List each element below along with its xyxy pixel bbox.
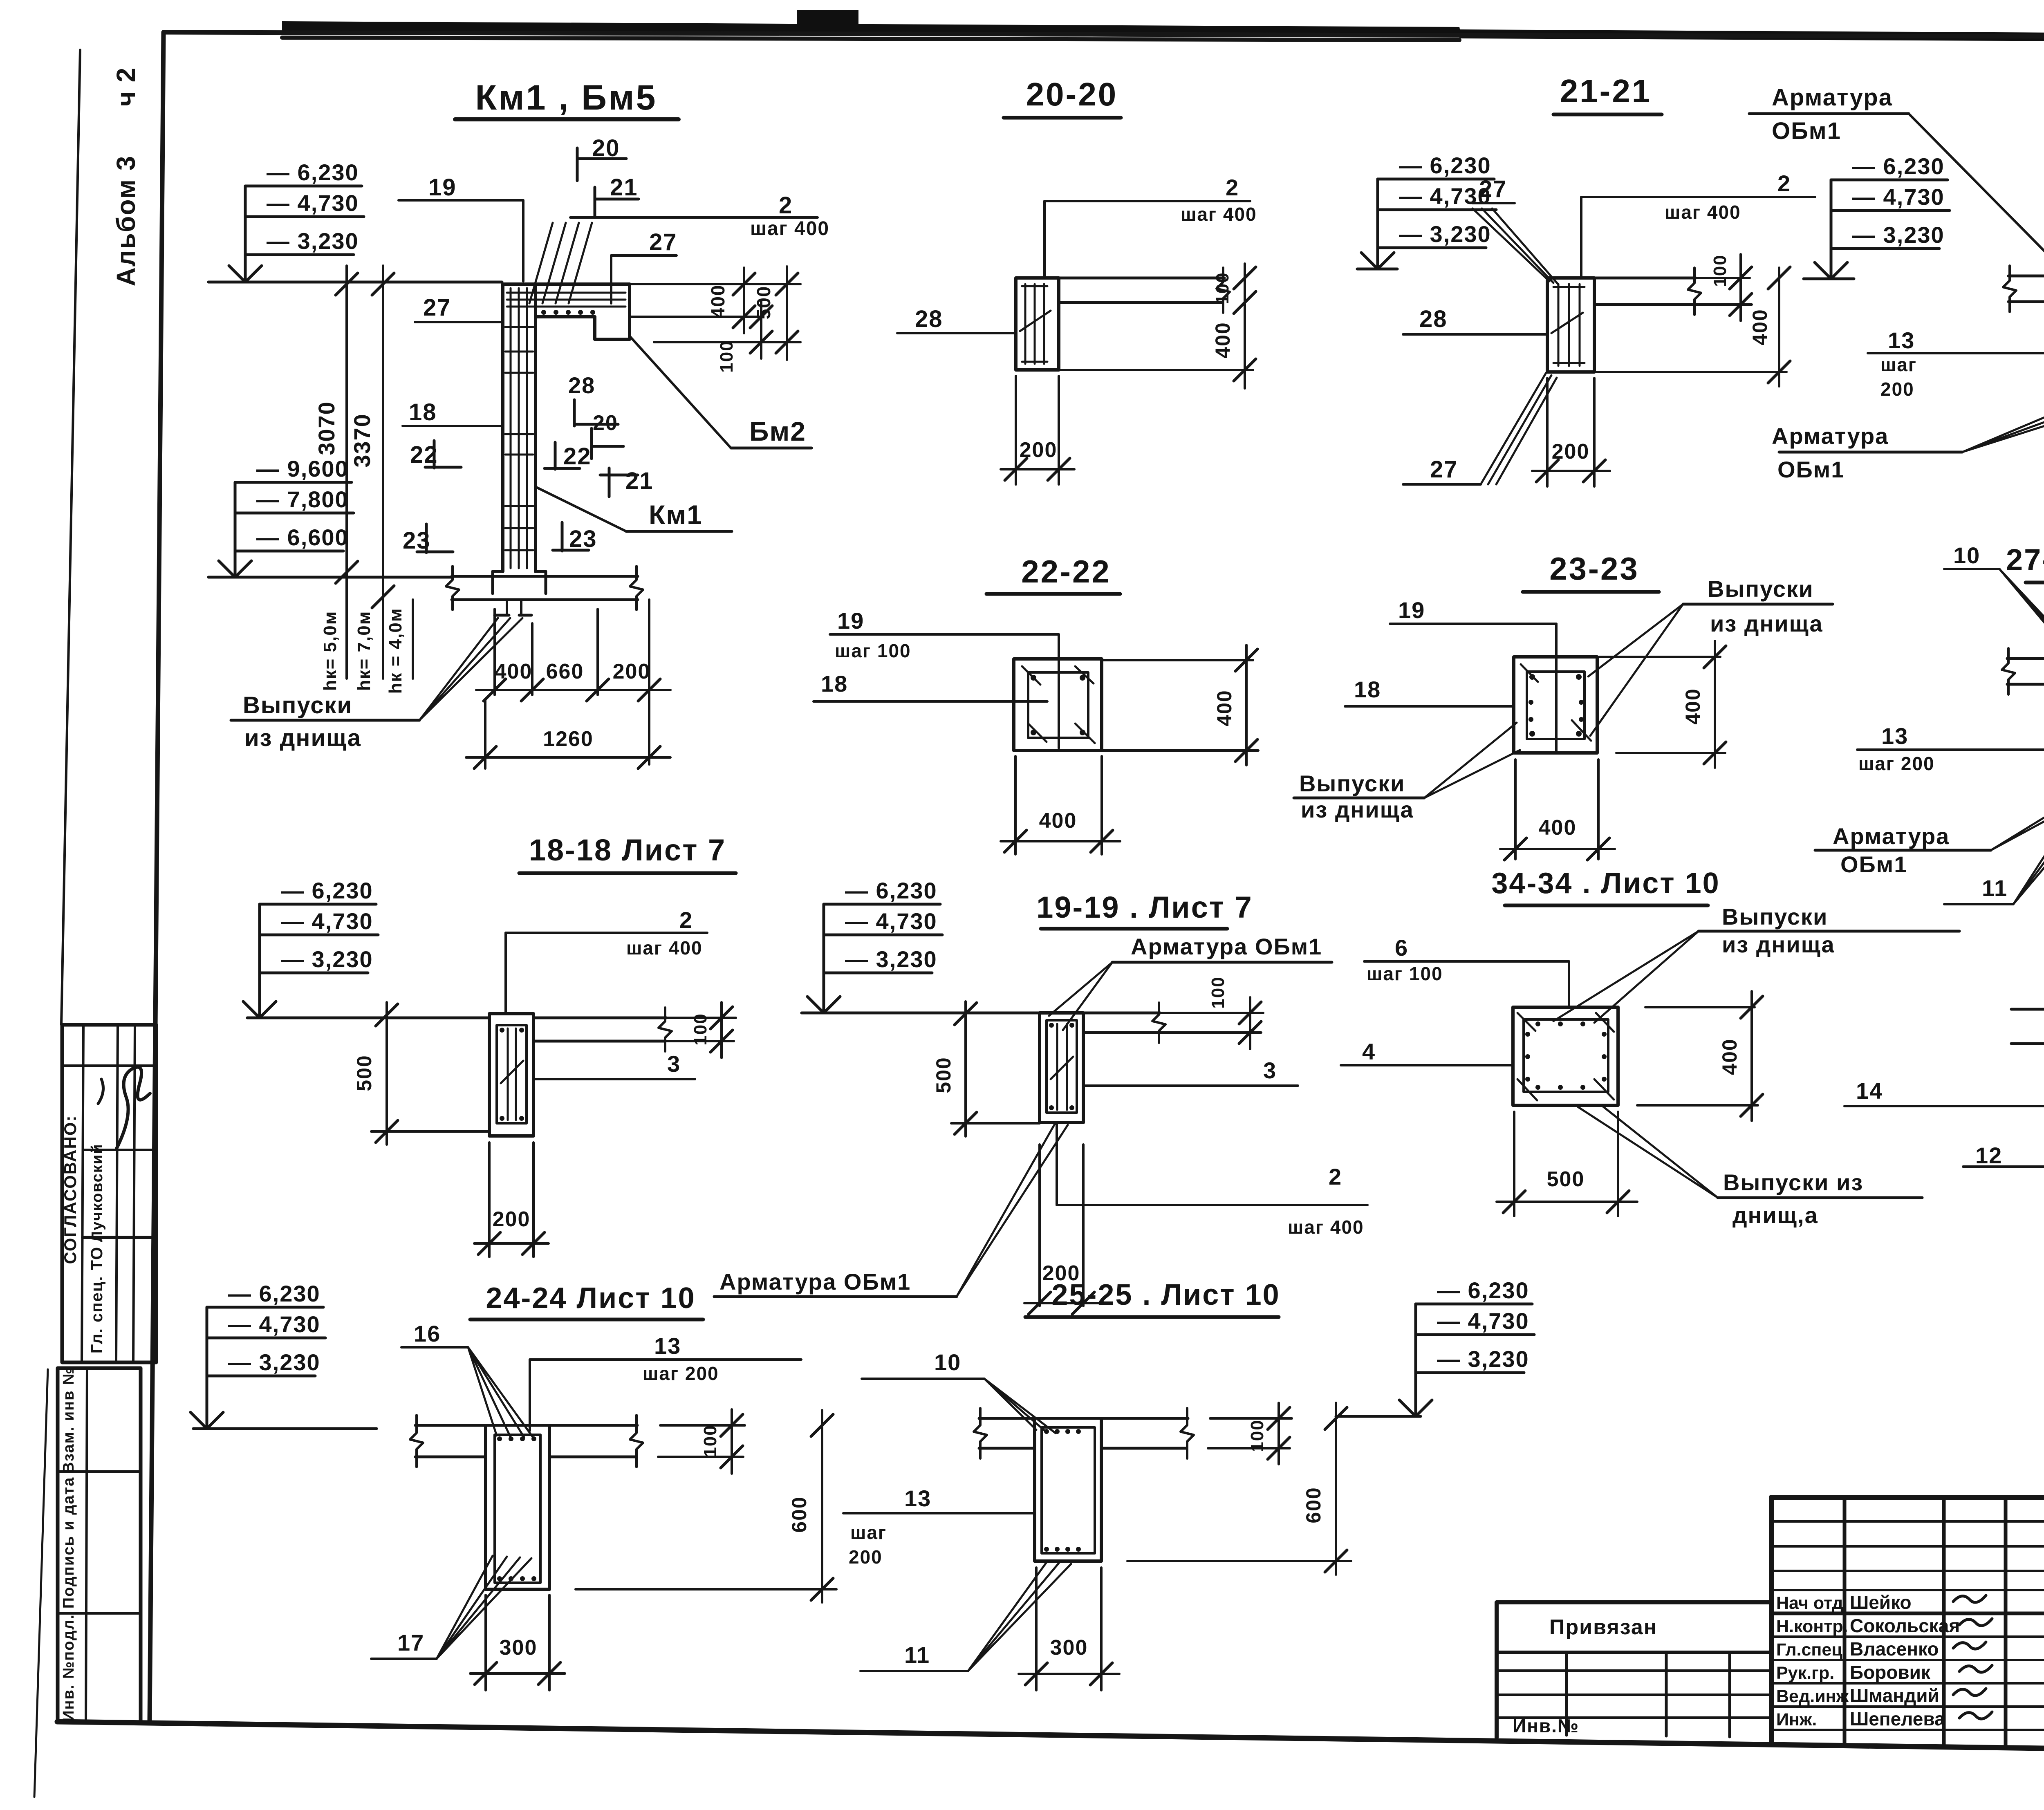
- shelf Km1 rebar lines: [507, 292, 625, 294]
- column 25-25 outline: [1033, 1448, 1036, 1561]
- svg-text:23-23: 23-23: [1549, 551, 1639, 587]
- title block upper row lines: [1771, 1520, 2044, 1523]
- svg-text:400: 400: [1039, 809, 1077, 833]
- level connector: [234, 482, 237, 577]
- wall Km1 outline: [501, 284, 504, 571]
- svg-text:— 3,230: — 3,230: [267, 228, 359, 254]
- svg-text:27: 27: [423, 294, 451, 321]
- svg-text:из днища: из днища: [1722, 932, 1835, 957]
- svg-text:шаг 400: шаг 400: [1665, 202, 1741, 223]
- svg-text:Выпуски: Выпуски: [1722, 904, 1828, 930]
- svg-text:300: 300: [1050, 1636, 1088, 1660]
- svg-text:4: 4: [1362, 1039, 1376, 1064]
- dimension 100 24-24: [660, 1424, 745, 1427]
- wall 19-19 outline: [1040, 1013, 1083, 1122]
- reference line: [193, 1427, 377, 1430]
- svg-text:10: 10: [1953, 542, 1980, 568]
- slab 19-19 lines: [1083, 1012, 1160, 1015]
- svg-text:500: 500: [1547, 1167, 1585, 1191]
- dimension 100 25-25: [1210, 1417, 1292, 1420]
- shelf Km1 top: [503, 282, 630, 286]
- svg-text:25-25 . Лист 10: 25-25 . Лист 10: [1051, 1279, 1280, 1311]
- sidebar signature squiggle: [117, 1067, 150, 1149]
- level connector: [823, 904, 825, 1013]
- dimension 400 right 34-34: [1645, 1006, 1755, 1008]
- drawing frame left border: [150, 32, 164, 1723]
- svg-text:— 4,730: — 4,730: [228, 1311, 320, 1337]
- svg-text:400: 400: [707, 284, 728, 318]
- svg-text:28: 28: [915, 306, 943, 332]
- svg-text:16: 16: [414, 1321, 441, 1346]
- svg-text:— 4,730: — 4,730: [1437, 1308, 1529, 1334]
- svg-text:Арматура: Арматура: [1833, 823, 1950, 849]
- svg-text:Власенко: Власенко: [1850, 1638, 1939, 1660]
- svg-text:— 6,230: — 6,230: [281, 878, 373, 903]
- svg-text:Км1 , Бм5: Км1 , Бм5: [475, 78, 657, 117]
- column 24-24 rebar cage: [495, 1435, 540, 1583]
- sidebar inventory box: [58, 1368, 141, 1722]
- svg-text:— 3,230: — 3,230: [845, 946, 937, 972]
- svg-text:27: 27: [1430, 456, 1458, 483]
- svg-text:17: 17: [397, 1630, 424, 1655]
- svg-text:Арматура ОБм1: Арматура ОБм1: [719, 1269, 911, 1295]
- sidebar approval box columns: [82, 1025, 83, 1362]
- svg-text:из днища: из днища: [244, 725, 361, 751]
- svg-text:27: 27: [649, 229, 677, 255]
- svg-text:2: 2: [1226, 175, 1239, 200]
- svg-text:Сокольская: Сокольская: [1850, 1615, 1960, 1636]
- slab 26-26: [2008, 275, 2044, 278]
- svg-text:Выпуски из: Выпуски из: [1723, 1169, 1863, 1195]
- reference line: [1357, 268, 1397, 271]
- slab 27-27: [2007, 657, 2044, 660]
- svg-text:13: 13: [654, 1333, 681, 1359]
- svg-text:— 4,730: — 4,730: [845, 908, 937, 934]
- svg-text:22-22: 22-22: [1021, 553, 1111, 589]
- dimension 400 21-21: [1778, 268, 1780, 386]
- svg-text:500: 500: [932, 1057, 955, 1093]
- dimension 500 bottom 34-34: [1513, 1112, 1515, 1216]
- svg-text:18-18 Лист 7: 18-18 Лист 7: [529, 833, 726, 867]
- svg-text:19: 19: [428, 174, 457, 201]
- svg-text:Шепелева: Шепелева: [1850, 1708, 1945, 1729]
- svg-text:20: 20: [592, 135, 620, 161]
- wall 19-19 rebar cage: [1047, 1020, 1077, 1113]
- svg-text:100: 100: [1213, 272, 1233, 304]
- svg-text:600: 600: [1302, 1487, 1325, 1523]
- svg-text:400: 400: [1718, 1038, 1741, 1075]
- leader to section 26-26: [1909, 114, 2044, 275]
- svg-text:— 6,600: — 6,600: [256, 524, 349, 550]
- dimension 400 bottom 23-23: [1514, 759, 1517, 859]
- svg-text:500: 500: [353, 1055, 376, 1091]
- dimension 100 18-18: [666, 1017, 736, 1019]
- svg-text:Альбом 3: Альбом 3: [111, 155, 141, 287]
- drawing frame top border: [164, 32, 2044, 38]
- svg-text:34-34 . Лист 10: 34-34 . Лист 10: [1491, 867, 1720, 900]
- dimension 500 shelf right: [786, 267, 788, 360]
- svg-text:— 3,230: — 3,230: [281, 946, 373, 972]
- svg-text:19: 19: [837, 608, 864, 634]
- svg-text:hк= 7,0м: hк= 7,0м: [354, 611, 374, 691]
- svg-text:днищ,а: днищ,а: [1732, 1202, 1818, 1228]
- dimension 600 25-25: [1335, 1403, 1337, 1575]
- dimension chain 400 660 200 Km1: [493, 609, 496, 695]
- level connector: [206, 1307, 208, 1429]
- svg-text:23: 23: [569, 526, 597, 552]
- svg-text:13: 13: [1881, 723, 1908, 749]
- sidebar inventory box column: [86, 1368, 87, 1722]
- svg-text:Подпись и дата: Подпись и дата: [60, 1477, 77, 1608]
- reference line: [247, 1017, 489, 1019]
- leader 2 шаг 400 18-18: [504, 933, 507, 1014]
- dimension 200 19-19: [1038, 1145, 1041, 1306]
- section mark 20 top tick: [576, 148, 579, 181]
- svg-text:Арматура: Арматура: [1772, 84, 1893, 111]
- svg-text:— 3,230: — 3,230: [228, 1349, 320, 1375]
- svg-text:400: 400: [1681, 688, 1704, 724]
- svg-text:Инв.№: Инв.№: [1513, 1715, 1579, 1736]
- square section 22-22: [1014, 659, 1102, 750]
- svg-text:из днища: из днища: [1710, 611, 1823, 636]
- svg-text:2: 2: [1329, 1164, 1342, 1189]
- svg-text:18: 18: [821, 671, 848, 697]
- svg-text:400: 400: [1213, 690, 1236, 726]
- svg-text:Бм2: Бм2: [749, 416, 806, 446]
- svg-text:200: 200: [1880, 379, 1914, 400]
- svg-text:— 4,730: — 4,730: [1852, 184, 1945, 210]
- attach box columns: [1565, 1652, 1568, 1735]
- svg-text:— 7,800: — 7,800: [256, 486, 349, 512]
- svg-text:200: 200: [849, 1546, 883, 1568]
- svg-text:— 9,600: — 9,600: [256, 456, 349, 482]
- svg-text:100: 100: [1208, 976, 1228, 1008]
- svg-text:12: 12: [1975, 1142, 2002, 1168]
- svg-text:Гл.спец.: Гл.спец.: [1776, 1640, 1847, 1660]
- svg-text:Выпуски: Выпуски: [1299, 771, 1405, 796]
- dimension 200 18-18: [488, 1142, 491, 1257]
- svg-text:19: 19: [1398, 597, 1425, 623]
- svg-text:— 4,730: — 4,730: [267, 190, 359, 216]
- dimension 400 right 23-23: [1600, 656, 1720, 658]
- svg-text:шаг 100: шаг 100: [1367, 963, 1443, 984]
- svg-text:28: 28: [1419, 306, 1448, 332]
- section mark 21 top tick: [594, 187, 596, 217]
- svg-text:шаг 400: шаг 400: [626, 937, 703, 959]
- svg-text:Н.контр.: Н.контр.: [1776, 1617, 1848, 1636]
- svg-text:ОБм1: ОБм1: [1777, 457, 1845, 482]
- svg-text:600: 600: [788, 1496, 811, 1532]
- svg-text:3: 3: [1263, 1057, 1277, 1083]
- svg-text:шаг 400: шаг 400: [1288, 1216, 1364, 1238]
- svg-text:шаг 100: шаг 100: [835, 640, 911, 661]
- svg-text:100: 100: [717, 340, 737, 372]
- dimension 500 19-19: [964, 1001, 967, 1136]
- svg-text:18: 18: [1354, 677, 1381, 702]
- svg-text:Вед.инж: Вед.инж: [1776, 1687, 1849, 1706]
- svg-text:Шмандий: Шмандий: [1850, 1685, 1939, 1706]
- svg-text:hк= 5,0м: hк= 5,0м: [320, 611, 340, 691]
- dimension 300 25-25: [1035, 1568, 1038, 1690]
- svg-text:из днища: из днища: [1301, 797, 1414, 822]
- leader 2 шаг 400 19-19: [1056, 1122, 1058, 1205]
- svg-text:200: 200: [1552, 440, 1590, 464]
- rebar bundle lines Km1: [529, 223, 553, 303]
- svg-text:200: 200: [493, 1207, 531, 1231]
- dimension 400 shelf right: [630, 283, 800, 285]
- title block vertical dividers left part: [1843, 1497, 1847, 1745]
- svg-text:11: 11: [1982, 875, 2008, 901]
- svg-text:22: 22: [563, 443, 592, 470]
- svg-text:100: 100: [700, 1425, 720, 1457]
- title block name rows: [1771, 1635, 2044, 1638]
- dimension 600 24-24: [821, 1410, 823, 1602]
- reference line: [208, 281, 502, 284]
- svg-text:400: 400: [1211, 322, 1234, 358]
- signature squiggles: [1953, 1595, 1986, 1602]
- sidebar approval box: [62, 1025, 156, 1362]
- reference line: [1804, 278, 1854, 280]
- svg-text:Нач отд: Нач отд: [1776, 1593, 1843, 1613]
- svg-text:660: 660: [546, 660, 584, 683]
- dimension 3070 Km1: [345, 266, 348, 591]
- svg-text:24-24 Лист 10: 24-24 Лист 10: [486, 1282, 695, 1315]
- wall 18-18 rebar cage: [497, 1025, 527, 1123]
- svg-text:— 3,230: — 3,230: [1399, 221, 1491, 247]
- slab 18-18 lines: [533, 1017, 666, 1019]
- dimension 100 21-21: [1739, 254, 1742, 321]
- svg-text:Арматура ОБм1: Арматура ОБм1: [1131, 934, 1322, 959]
- svg-text:шаг: шаг: [850, 1522, 887, 1543]
- base slab rebar stubs: [506, 600, 508, 615]
- svg-text:— 6,230: — 6,230: [1437, 1277, 1529, 1303]
- svg-text:2: 2: [779, 192, 793, 219]
- svg-text:18: 18: [409, 399, 437, 426]
- square section 34-34: [1513, 1007, 1618, 1105]
- svg-text:Рук.гр.: Рук.гр.: [1776, 1663, 1834, 1683]
- dimension 200 20-20: [1015, 376, 1017, 484]
- level connector: [258, 904, 261, 1018]
- title block outer frame: [1771, 1495, 2044, 1500]
- svg-text:шаг: шаг: [1880, 354, 1917, 375]
- svg-text:300: 300: [500, 1636, 538, 1660]
- footing Km1: [493, 570, 503, 573]
- svg-text:3: 3: [667, 1051, 681, 1077]
- attach box rows: [1497, 1669, 1771, 1672]
- svg-text:шаг 200: шаг 200: [643, 1363, 719, 1384]
- svg-text:27: 27: [1479, 176, 1507, 202]
- svg-text:ч 2: ч 2: [111, 67, 141, 107]
- reference line: [1336, 1415, 1421, 1418]
- svg-text:Гл. спец. ТО: Гл. спец. ТО: [88, 1246, 106, 1353]
- svg-text:Выпуски: Выпуски: [1708, 576, 1813, 602]
- dimension 200 21-21: [1546, 378, 1549, 486]
- slab 21-21 lines: [1594, 277, 1696, 280]
- svg-text:СОГЛАСОВАНО:: СОГЛАСОВАНО:: [61, 1115, 80, 1264]
- svg-text:Лучковский: Лучковский: [89, 1144, 106, 1242]
- reference line: [802, 1012, 1040, 1015]
- svg-text:19-19 . Лист 7: 19-19 . Лист 7: [1036, 890, 1253, 924]
- wall 21-21 outline: [1547, 278, 1594, 372]
- svg-text:100: 100: [1710, 254, 1730, 287]
- svg-text:1260: 1260: [543, 727, 594, 751]
- leader 2 шаг 400 21-21: [1580, 197, 1582, 278]
- slab 24-24: [415, 1424, 637, 1427]
- column 24-24 outline: [484, 1457, 487, 1589]
- svg-text:Взам. инв №: Взам. инв №: [60, 1367, 77, 1474]
- svg-text:3370: 3370: [349, 413, 375, 468]
- drawing frame bottom border: [57, 1722, 2044, 1755]
- svg-text:ОБм1: ОБм1: [1840, 851, 1907, 877]
- svg-text:100: 100: [690, 1013, 710, 1045]
- svg-text:100: 100: [1247, 1419, 1267, 1452]
- dimension 3370 Km1: [382, 266, 384, 615]
- dimension 300 24-24: [484, 1595, 487, 1690]
- svg-text:21: 21: [625, 468, 654, 494]
- sheet left lower edge line: [34, 1369, 48, 1797]
- title block attach box Привязан: [1497, 1600, 1771, 1604]
- svg-text:Инж.: Инж.: [1776, 1710, 1817, 1729]
- svg-text:Боровик: Боровик: [1850, 1662, 1931, 1683]
- svg-text:— 6,230: — 6,230: [845, 878, 937, 903]
- level connector: [244, 186, 247, 282]
- svg-text:hк = 4,0м: hк = 4,0м: [385, 608, 406, 694]
- slab 28-28 top line: [2011, 1008, 2044, 1011]
- sidebar inventory box rows: [58, 1470, 141, 1473]
- svg-text:— 6,230: — 6,230: [1852, 153, 1945, 179]
- dimension 100/400 20-20: [1244, 264, 1246, 388]
- svg-text:400: 400: [1748, 309, 1771, 345]
- base slab Km1: [452, 575, 638, 578]
- level connector: [1830, 180, 1833, 279]
- slab 20-20 lines: [1059, 277, 1224, 280]
- svg-text:Выпуски: Выпуски: [243, 692, 352, 719]
- top scanned sheet edge band: [282, 21, 1461, 38]
- svg-text:— 6,230: — 6,230: [267, 159, 359, 185]
- slab 28-28 bottom lines: [2011, 1042, 2044, 1045]
- svg-text:шаг 200: шаг 200: [1858, 753, 1935, 774]
- svg-text:400: 400: [1539, 816, 1577, 840]
- svg-text:— 3,230: — 3,230: [1852, 222, 1945, 248]
- reference line: [208, 576, 452, 579]
- wall 20-20 outline: [1016, 278, 1059, 370]
- slab 25-25: [979, 1417, 1188, 1420]
- svg-text:200: 200: [613, 660, 651, 683]
- svg-text:3070: 3070: [314, 401, 339, 455]
- svg-text:— 6,230: — 6,230: [228, 1281, 320, 1306]
- svg-text:20-20: 20-20: [1026, 76, 1118, 112]
- dimension 400 bottom 22-22: [1014, 756, 1017, 854]
- leader lines to base slab outlets: [419, 618, 498, 720]
- wall Km1 rebar ties: [505, 326, 533, 328]
- dimension 100 19-19: [1160, 1012, 1263, 1014]
- svg-text:6: 6: [1395, 935, 1408, 961]
- leader 2 шаг 400 20-20: [1043, 201, 1046, 278]
- svg-text:2: 2: [1777, 170, 1791, 196]
- dimension 400 right 22-22: [1102, 659, 1253, 661]
- svg-text:— 4,730: — 4,730: [281, 908, 373, 934]
- svg-text:шаг 400: шаг 400: [1181, 204, 1257, 225]
- level connector: [1414, 1304, 1417, 1416]
- svg-text:10: 10: [934, 1349, 961, 1375]
- square section 23-23: [1514, 657, 1597, 753]
- svg-text:28: 28: [568, 372, 595, 398]
- svg-text:— 3,230: — 3,230: [1437, 1346, 1529, 1372]
- svg-text:200: 200: [1020, 438, 1058, 462]
- wall 18-18 outline: [489, 1014, 533, 1136]
- column 25-25 rebar cage: [1042, 1427, 1095, 1553]
- svg-text:21: 21: [610, 174, 638, 201]
- top border reinforcement line: [282, 38, 1459, 40]
- wall 20-20 rebar bars: [1024, 284, 1026, 364]
- dimension 1260 Km1: [484, 699, 486, 768]
- sidebar approval box rows: [63, 1064, 156, 1067]
- svg-text:Км1: Км1: [649, 500, 703, 530]
- svg-text:21-21: 21-21: [1560, 73, 1652, 109]
- svg-text:ОБм1: ОБм1: [1772, 118, 1841, 144]
- svg-text:2: 2: [679, 907, 693, 933]
- level connector: [1376, 179, 1379, 269]
- svg-text:шаг 400: шаг 400: [750, 218, 829, 240]
- sheet left edge line: [61, 50, 80, 1025]
- wall Km1 rebar bars: [510, 288, 512, 568]
- wall 21-21 rebar bars: [1558, 284, 1560, 366]
- svg-text:Арматура: Арматура: [1772, 423, 1889, 449]
- svg-text:13: 13: [904, 1485, 931, 1511]
- svg-text:27-27. Лист 10: 27-27. Лист 10: [2006, 543, 2044, 577]
- svg-text:— 6,230: — 6,230: [1399, 152, 1491, 178]
- svg-text:Привязан: Привязан: [1549, 1615, 1657, 1639]
- svg-text:13: 13: [1888, 327, 1915, 353]
- svg-text:11: 11: [904, 1642, 930, 1668]
- svg-text:400: 400: [495, 660, 533, 683]
- svg-text:14: 14: [1856, 1078, 1883, 1104]
- dimension 500 18-18: [385, 1002, 388, 1145]
- svg-text:Инв. №подл.: Инв. №подл.: [60, 1614, 77, 1722]
- svg-text:— 4,730: — 4,730: [1399, 183, 1491, 209]
- svg-text:Шейко: Шейко: [1850, 1592, 1912, 1613]
